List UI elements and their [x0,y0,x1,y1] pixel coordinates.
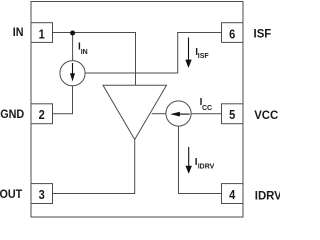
svg-text:2: 2 [39,107,45,122]
pin box 4 [222,184,244,204]
svg-text:IN: IN [81,49,88,56]
svg-text:IN: IN [13,27,24,40]
current source I_CC circle [166,101,191,126]
svg-text:4: 4 [229,187,235,202]
wire junction down to I_IN source [72,33,74,61]
wire I_CC source to pin5 VCC [191,113,221,115]
pin box 2 [31,104,53,124]
pin box 6 [222,23,244,43]
pin box 1 [31,23,53,43]
amplifier buffer A1 [103,85,167,139]
current flow arrow I_ISF [185,38,191,69]
svg-text:GND: GND [0,109,24,122]
IC boundary [31,2,243,218]
wire amplifier to I_CC source [152,113,166,115]
arrow inside I_CC source [170,112,189,117]
svg-text:IDRV: IDRV [198,164,215,171]
wire junction to amplifier input [73,33,136,86]
current source I_IN circle [60,61,85,86]
svg-text:6: 6 [229,26,235,41]
svg-text:5: 5 [229,107,235,122]
wire amplifier output to pin3 OUT [53,140,135,194]
svg-text:3: 3 [39,187,45,202]
wire pin1 to junction [53,32,73,34]
svg-text:VCC: VCC [254,109,279,122]
wire I_IN source to pin6 ISF [85,33,221,74]
svg-text:OUT: OUT [0,188,22,201]
arrow inside I_IN source [70,63,75,82]
svg-text:ISF: ISF [198,53,210,60]
junction dot node IN [70,31,75,36]
pin box 5 [222,104,244,124]
svg-text:ISF: ISF [254,27,272,40]
wire I_CC source to pin4 IDRV [179,126,222,193]
svg-text:CC: CC [202,105,212,112]
pin box 3 [31,184,53,204]
wire I_IN source to pin2 GND [53,86,73,114]
svg-text:1: 1 [39,26,45,41]
current flow arrow I_IDRV [186,147,192,174]
svg-text:IDRV: IDRV [255,189,280,202]
